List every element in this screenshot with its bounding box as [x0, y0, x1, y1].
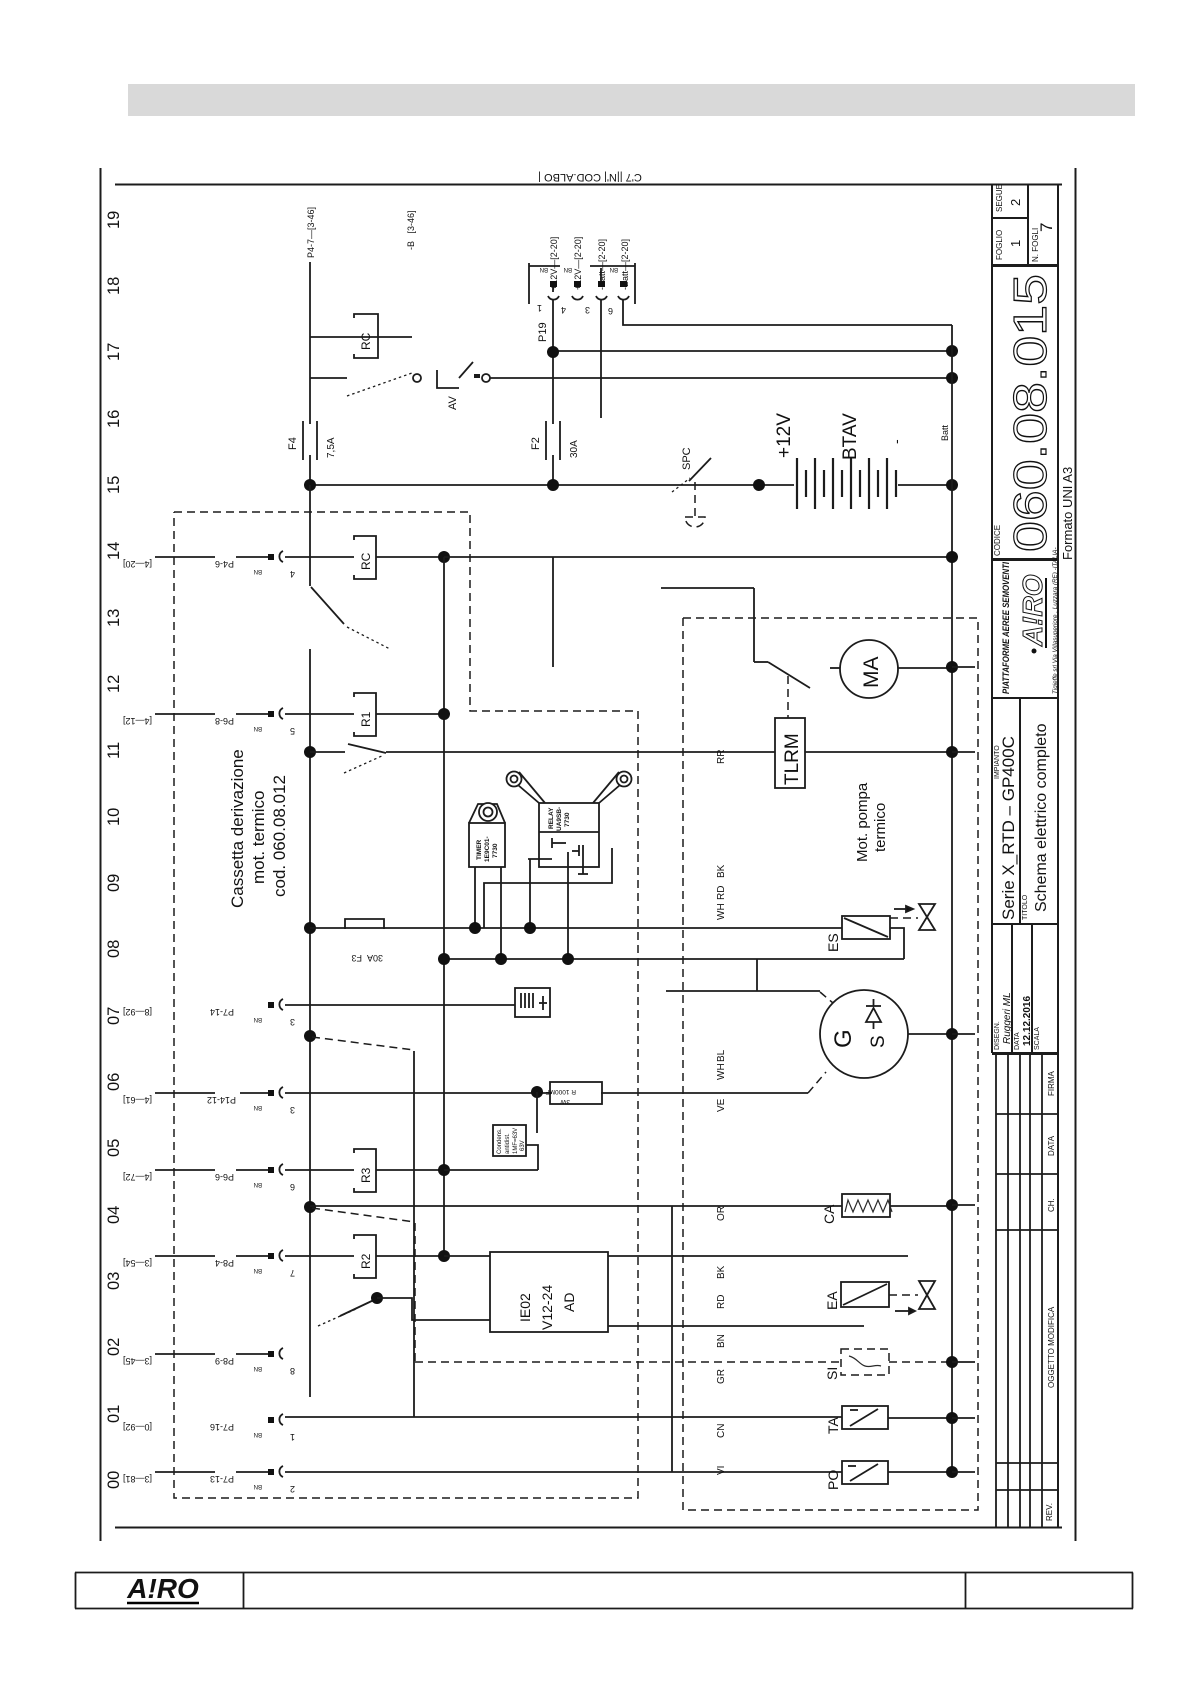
wire	[155, 1092, 215, 1094]
ruler column numbers 00-19 (rotated)	[105, 211, 123, 1489]
pin 3 label -Batt [2-20]	[597, 239, 607, 290]
junction (952,351)	[946, 345, 958, 357]
TA label	[825, 1416, 841, 1434]
wire row 1093	[285, 1092, 552, 1094]
key switch AV right terminal	[482, 374, 490, 382]
wire battery minus to bus	[898, 484, 952, 486]
wire	[285, 1169, 354, 1171]
junction (537,1092)	[531, 1086, 543, 1098]
wire CA to bus	[890, 1205, 952, 1207]
DATA label + value	[1014, 1032, 1021, 1050]
svg-text:DATA: DATA	[1047, 1135, 1056, 1156]
node label -B [3-46]	[406, 210, 416, 250]
svg-text:PIATTAFORME AEREE SEMOVENTI: PIATTAFORME AEREE SEMOVENTI	[1001, 562, 1012, 694]
wire	[236, 1471, 268, 1473]
wire row 1005	[285, 1004, 515, 1006]
net label [8-92]	[123, 1007, 152, 1017]
pin 3 wire upper	[600, 268, 602, 281]
svg-text:FOGLIO: FOGLIO	[995, 230, 1004, 260]
pin number 6	[290, 1182, 295, 1192]
svg-text:Serie X_RTD – GP400C: Serie X_RTD – GP400C	[999, 736, 1018, 920]
capacitor lead to row 1170	[526, 1145, 538, 1170]
converter block IE02	[490, 1252, 608, 1332]
wire PO to bus	[888, 1471, 952, 1473]
diode symbol inside G	[866, 999, 881, 1029]
pin symbol	[268, 1348, 283, 1359]
relay text	[548, 807, 571, 831]
svg-text:060.08.015: 060.08.015	[1004, 274, 1056, 552]
junction (952,667)	[946, 661, 958, 673]
SI block	[841, 1349, 889, 1375]
dashed vertical px415	[414, 1223, 416, 1362]
dashed actuator diagonal	[312, 1037, 414, 1050]
inner frame line top (landscape right margin)	[115, 184, 1062, 186]
wire	[285, 1255, 354, 1257]
fuse F4 label	[287, 437, 299, 450]
key switch AV key symbol	[437, 362, 480, 388]
pin number 4	[290, 569, 295, 579]
svg-text:A!RO: A!RO	[126, 1573, 199, 1604]
feeder stub row 588	[661, 587, 754, 589]
pin 4 symbol	[572, 281, 583, 300]
pin symbol	[268, 1466, 283, 1477]
junction (310,1207)	[304, 1201, 316, 1213]
pin number 8	[290, 1366, 295, 1376]
battery gray label	[940, 424, 950, 441]
SI label	[824, 1367, 840, 1380]
FOGLIO/SEGUE cells	[992, 217, 1028, 219]
pin code	[254, 1267, 262, 1273]
pin 1 number	[537, 303, 542, 313]
junction (952,1472)	[946, 1466, 958, 1478]
AIRO logo (footer)	[126, 1573, 199, 1604]
switch PO	[842, 1461, 888, 1484]
contact blade	[340, 1299, 376, 1316]
wire	[236, 713, 268, 715]
S letter	[868, 1035, 889, 1048]
EA dashed link	[889, 1294, 918, 1296]
CODICE cell bottom	[992, 558, 1058, 561]
pressure switch SPC	[672, 458, 711, 527]
svg-text:1: 1	[1008, 240, 1023, 247]
relay coil R3	[354, 1149, 376, 1192]
junction (952,1362)	[946, 1356, 958, 1368]
timer text	[476, 836, 499, 862]
wire down to contact	[753, 588, 755, 662]
suppressor resistor block	[550, 1082, 602, 1104]
pin number 3	[290, 1017, 295, 1027]
junction (568,959)	[562, 953, 574, 965]
bus stub right (752)	[952, 751, 975, 753]
junction (310,928)	[304, 922, 316, 934]
IE02 output wire (row 1256)	[608, 1255, 908, 1257]
EA arrow	[895, 1308, 915, 1314]
wire CA row	[310, 1205, 842, 1207]
FOGLIO label/value	[995, 184, 1004, 212]
DISEGN/DATA/SCALA splits	[1011, 924, 1013, 1053]
svg-text:2: 2	[1008, 199, 1023, 206]
pin 1 code BN	[540, 266, 548, 272]
PO label	[825, 1470, 841, 1490]
node label P4-7 [3-46]	[306, 207, 316, 258]
wire to junction	[376, 1169, 444, 1171]
bus stub right (1034)	[952, 1033, 975, 1035]
relay coil R2	[354, 1235, 376, 1278]
designator P14-12	[207, 1095, 236, 1105]
EA valve bowtie	[919, 1281, 935, 1309]
svg-text:7: 7	[1037, 223, 1056, 232]
bus stub right (1472)	[952, 1471, 975, 1473]
junction (530,928)	[524, 922, 536, 934]
pin 4 label +12V [2-20]	[573, 237, 583, 290]
ES jog from row 959	[890, 928, 904, 959]
MA rim stub	[830, 667, 840, 669]
timer leads	[474, 867, 476, 928]
net label [4-12]	[123, 716, 152, 726]
wire TA to bus	[888, 1417, 952, 1419]
net label [3-45]	[123, 1356, 152, 1366]
net label [0-92]	[123, 1422, 152, 1432]
designator P7-13	[210, 1474, 234, 1484]
frame left vertical (landscape top edge)	[100, 168, 102, 1541]
junction (310,485)	[304, 479, 316, 491]
wire jog into IE02 bottom	[377, 1298, 490, 1320]
battery minus label	[888, 439, 904, 444]
pin 1 symbol	[548, 281, 559, 300]
junction (377,1298)	[371, 1292, 383, 1304]
DISEGN label + name	[994, 1021, 1001, 1050]
wire to junction	[376, 556, 444, 558]
pin symbol	[268, 1414, 283, 1425]
svg-text:Schema elettrico completo: Schema elettrico completo	[1033, 723, 1050, 912]
solenoid EA	[841, 1282, 889, 1307]
svg-text:SEGUE: SEGUE	[995, 184, 1004, 212]
key switch AV blade	[347, 373, 412, 396]
wire key switch row right to bus	[490, 377, 952, 379]
gray header bar	[128, 84, 1135, 116]
junction (444,557)	[438, 551, 450, 563]
small module on row 1005	[515, 988, 550, 1017]
wire row 557 to bus	[444, 556, 952, 558]
pin 6 code BN	[610, 266, 618, 272]
wire	[236, 1353, 268, 1355]
junction (759,485)	[753, 479, 765, 491]
ES valve bowtie	[919, 904, 935, 930]
wire	[236, 1255, 268, 1257]
pin code	[254, 1181, 262, 1187]
wire battery row	[310, 484, 794, 486]
pin 4 number	[561, 305, 566, 315]
pin 1 label +12V [2-20]	[549, 237, 559, 290]
SPC label	[681, 447, 693, 470]
battery +12V label	[774, 413, 795, 458]
wire MA to bus	[898, 667, 952, 669]
CH. label	[1047, 1198, 1056, 1212]
wire	[155, 1353, 215, 1355]
designator P8-9	[215, 1356, 234, 1366]
pin symbol	[268, 551, 283, 562]
pin 6 symbol	[618, 281, 629, 300]
junction (952,1418)	[946, 1412, 958, 1424]
cassetta derivazione label	[228, 749, 289, 908]
contact blade (motor)	[768, 662, 810, 688]
wire row 1472	[285, 1471, 842, 1473]
wire key switch row left	[310, 377, 347, 379]
connector designator P19	[537, 322, 549, 342]
wire	[285, 713, 354, 715]
Serie X_RTD - GP400C	[999, 736, 1018, 920]
IE02 output wire (row 1326)	[608, 1325, 864, 1327]
wire RC coil row	[310, 336, 412, 338]
pin 1 wire lower	[552, 300, 554, 424]
junction (952,485)	[946, 479, 958, 491]
AIRO cell bottom	[992, 697, 1058, 699]
address line	[1052, 547, 1059, 694]
contact blade	[311, 587, 344, 624]
wire alternator to bus	[908, 1033, 952, 1035]
inner frame line bottom (landscape left margin)	[115, 1527, 1062, 1529]
designator P6-6	[215, 1172, 234, 1182]
OGGETTO MODIFICA label	[1047, 1306, 1056, 1388]
title block outer edges	[991, 184, 993, 1053]
top margin annotation (upside-down text)	[538, 171, 642, 183]
ES arrow	[894, 906, 913, 912]
svg-text:DATA: DATA	[1014, 1032, 1021, 1050]
bus stub right (1362)	[952, 1361, 975, 1363]
FIRMA label	[1047, 1070, 1056, 1096]
CODICE label	[993, 525, 1002, 556]
contact stub	[754, 661, 768, 663]
pin code	[254, 1431, 262, 1437]
frame right vertical (landscape bottom edge)	[1075, 168, 1077, 1541]
dashed actuator diagonal	[312, 1208, 415, 1222]
relay coil R1	[354, 693, 376, 736]
dashed wire SI row	[415, 1361, 841, 1363]
svg-text:Ruggeri ML: Ruggeri ML	[1002, 992, 1013, 1044]
fuse F4 value	[326, 437, 337, 458]
wire	[155, 1471, 215, 1473]
G letter	[830, 1029, 857, 1048]
switch TA	[842, 1406, 888, 1429]
junction (952,557)	[946, 551, 958, 563]
pin symbol	[268, 1164, 283, 1175]
svg-text:CH.: CH.	[1047, 1198, 1056, 1212]
wire row 351	[553, 350, 952, 352]
svg-text:A!RO: A!RO	[1017, 574, 1048, 647]
pin 4 code BN	[564, 266, 572, 272]
svg-text:DISEGN.: DISEGN.	[994, 1021, 1001, 1050]
Mot. pompa termico label	[854, 782, 889, 862]
wire row 928 (ES feed)	[310, 927, 842, 929]
svg-text:TITOLO: TITOLO	[1022, 894, 1029, 920]
junction (553,485)	[547, 479, 559, 491]
designator P4-6	[215, 559, 234, 569]
svg-text:12.12.2016: 12.12.2016	[1022, 996, 1033, 1046]
Formato UNI A3	[1060, 467, 1075, 560]
wire	[236, 1169, 268, 1171]
revision strip	[996, 1053, 1058, 1527]
battery BTAV label	[840, 413, 861, 460]
junction (444,959)	[438, 953, 450, 965]
wire name RR	[716, 750, 727, 764]
svg-text:Formato UNI A3: Formato UNI A3	[1060, 467, 1075, 560]
pin code	[254, 568, 262, 574]
svg-text:REV.: REV.	[1045, 1503, 1054, 1521]
svg-text:Tigieffe srl Via Villasuperior: Tigieffe srl Via Villasuperiore , Luzzar…	[1052, 547, 1059, 694]
svg-text:FIRMA: FIRMA	[1047, 1070, 1056, 1096]
pin 3 wire lower	[600, 300, 602, 418]
pin code	[254, 725, 262, 731]
wire down from junction	[536, 1092, 538, 1133]
CA label	[821, 1204, 837, 1224]
TITOLO label	[1022, 894, 1029, 920]
wire to junction	[376, 1255, 444, 1257]
pin code	[254, 1016, 262, 1022]
solenoid ES	[842, 916, 890, 939]
net label [4-20]	[123, 559, 152, 569]
designator P7-14	[210, 1007, 234, 1017]
wire row 1170 right	[444, 1169, 538, 1171]
Schema elettrico completo	[1033, 723, 1050, 912]
svg-text:OGGETTO MODIFICA: OGGETTO MODIFICA	[1047, 1306, 1056, 1388]
junction (310,1036)	[304, 1030, 316, 1042]
wire TLRM to bus	[805, 751, 952, 753]
REV. label	[1045, 1503, 1054, 1521]
svg-text:SCALA: SCALA	[1034, 1027, 1041, 1050]
N.FOGLI label/value	[1031, 228, 1040, 262]
fuse F3 (staple)	[345, 919, 384, 929]
pin 6 number	[608, 306, 613, 316]
net label [3-54]	[123, 1258, 152, 1268]
pin symbol	[268, 1250, 283, 1261]
pin symbol	[268, 1087, 283, 1098]
key switch AV left terminal	[413, 374, 421, 382]
wire	[236, 556, 268, 558]
relay coil RC (row 557)	[354, 536, 376, 579]
designator P8-4	[215, 1258, 234, 1268]
junction (444,714)	[438, 708, 450, 720]
wire row 752	[310, 751, 345, 753]
designator P7-16	[210, 1422, 234, 1432]
ES dashed link	[890, 917, 918, 919]
wire from P4-7 branch down	[309, 337, 311, 424]
actuator dotted link	[347, 627, 390, 649]
junction (475,928)	[469, 922, 481, 934]
EA label	[824, 1291, 840, 1310]
actuator dotted link	[318, 1309, 356, 1326]
junction (501,959)	[495, 953, 507, 965]
junction (444,1256)	[438, 1250, 450, 1262]
vertical wire px414	[413, 1051, 415, 1417]
dashed wire SI to bus	[889, 1361, 952, 1363]
wire TA feed row	[285, 1416, 842, 1418]
junction (952,1205)	[946, 1199, 958, 1211]
battery BTAV	[797, 458, 896, 509]
thermal relay TLRM	[775, 718, 805, 788]
bus stub right (1418)	[952, 1417, 975, 1419]
IMPIANTO label	[994, 745, 1001, 779]
pin code	[254, 1483, 262, 1489]
wire	[240, 1092, 268, 1094]
pin 1 wire upper	[552, 281, 554, 292]
pin number 1	[290, 1432, 295, 1442]
wire row 1093 right	[601, 1092, 808, 1094]
drawing code 060.08.015	[1004, 274, 1056, 552]
fuse F2 label	[530, 437, 542, 450]
net label [3-81]	[123, 1474, 152, 1484]
wire V553 down	[552, 557, 554, 667]
wire	[285, 556, 354, 558]
pin 6 label -Batt [2-20]	[620, 239, 630, 290]
SCALA label	[1034, 1027, 1041, 1050]
svg-text:CODICE: CODICE	[993, 525, 1002, 556]
net label [4-61]	[123, 1095, 152, 1105]
ES label	[825, 933, 841, 952]
wire P4-7 vertical	[309, 262, 311, 337]
alternator lower lead (dashed diag)	[808, 1072, 826, 1093]
wire	[155, 1169, 215, 1171]
IMPIANTO/TITOLO split	[1019, 698, 1021, 924]
pin number 2	[290, 1484, 295, 1494]
fuse F3 label	[351, 953, 362, 963]
relay pins	[484, 838, 612, 959]
dashed lead to alternator top	[820, 992, 833, 1003]
relay coil RC	[354, 314, 378, 358]
bus stub right (667)	[952, 666, 975, 668]
wire pin6 to bus corner	[623, 300, 952, 325]
contact blade row 752	[348, 744, 386, 753]
motor MA	[840, 640, 898, 698]
pin code	[254, 1365, 262, 1371]
DATA label (strip)	[1047, 1135, 1056, 1156]
pin number 3	[290, 1105, 295, 1115]
coil CA (zigzag)	[842, 1194, 890, 1217]
designator P6-8	[215, 716, 234, 726]
wire corner to alternator	[756, 959, 758, 991]
junction (952,1034)	[946, 1028, 958, 1040]
junction (553,351)	[547, 346, 559, 358]
junction (952,378)	[946, 372, 958, 384]
wire	[155, 556, 215, 558]
key switch AV label	[447, 395, 459, 410]
wire px310 below contact	[309, 649, 311, 1397]
wire to junction	[376, 713, 444, 715]
junction (444,1170)	[438, 1164, 450, 1176]
bus stub right (1205)	[952, 1204, 975, 1206]
footer box	[75, 1573, 1133, 1609]
pin number 7	[290, 1268, 295, 1278]
wire	[155, 1255, 215, 1257]
PIATTAFORME AEREE SEMOVENTI	[1001, 562, 1012, 694]
junction (952,752)	[946, 746, 958, 758]
capacitor block	[493, 1125, 526, 1156]
wire row 959	[444, 958, 904, 960]
fuse F2 value	[569, 440, 580, 458]
pin 3 number	[585, 305, 590, 315]
footer	[0, 1560, 1190, 1640]
pin code	[254, 1104, 262, 1110]
actuator dotted link row 752	[344, 755, 384, 773]
pin symbol	[268, 999, 283, 1010]
pin 3 symbol	[596, 281, 607, 300]
junction (310,752)	[304, 746, 316, 758]
AIRO logo (title block)	[1017, 574, 1048, 653]
wire into IE02	[444, 1255, 490, 1257]
net label [4-72]	[123, 1172, 152, 1182]
wire	[155, 713, 215, 715]
connector bracket lines	[528, 263, 530, 304]
pin symbol	[268, 708, 283, 719]
